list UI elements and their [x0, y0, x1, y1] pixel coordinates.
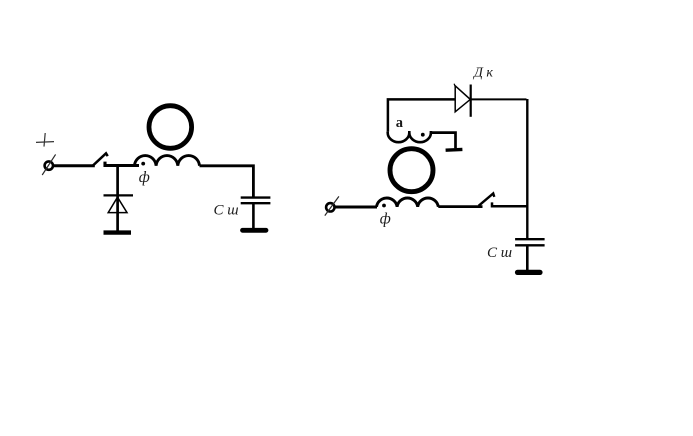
diode Dk cathode bar: [470, 85, 472, 117]
wire inductor to capacitor: [200, 166, 254, 197]
ground secondary: [446, 148, 463, 152]
svg-text:ф: ф: [380, 211, 391, 228]
svg-text:а: а: [396, 115, 404, 131]
inductor winding ph right: [377, 198, 439, 207]
svg-text:С ш: С ш: [487, 245, 512, 261]
diode VD1 triangle: [108, 197, 127, 212]
wire winding to switch right: [438, 205, 482, 208]
toroidal core left: [149, 106, 192, 149]
polarity dot left: [141, 162, 145, 166]
capacitor Csh right plates: [515, 239, 545, 245]
wire right riser node to top: [526, 99, 528, 238]
wire terminal to switch: [53, 164, 95, 167]
polarity dot right primary: [382, 204, 386, 208]
diode Dk corner tick: [453, 84, 456, 87]
top wire left corner to diode: [388, 99, 455, 131]
wire diode to right corner: [471, 98, 527, 100]
switch S2 blade: [479, 193, 495, 205]
switch S1 fixed contact and wire to junction: [105, 162, 139, 166]
diode Dk triangle: [455, 86, 470, 112]
secondary winding a: [388, 131, 431, 142]
terminal input right: [325, 196, 339, 215]
wire capacitor to ground right: [526, 246, 529, 271]
wire capacitor to ground left: [252, 204, 255, 229]
wire secondary to ground: [431, 133, 456, 149]
diode VD1 cathode bar: [104, 194, 134, 196]
inductor winding ph left: [134, 156, 199, 166]
switch S2 fixed contact and wire to node: [492, 202, 528, 206]
polarity dot secondary: [421, 133, 425, 137]
ground left capacitor: [243, 228, 267, 233]
svg-text:С ш: С ш: [214, 203, 239, 219]
capacitor Csh left plates: [241, 198, 271, 204]
wire terminal to winding right: [335, 206, 378, 209]
switch S1 blade: [93, 153, 108, 166]
svg-text:ф: ф: [139, 169, 150, 186]
svg-text:Д к: Д к: [472, 66, 493, 81]
plus polarity mark: [36, 133, 54, 147]
ground right capacitor: [518, 270, 541, 275]
toroidal core right: [390, 149, 433, 192]
wire junction to diode branch: [116, 164, 119, 232]
ground left diode: [104, 230, 132, 234]
terminal input left: [42, 154, 55, 175]
